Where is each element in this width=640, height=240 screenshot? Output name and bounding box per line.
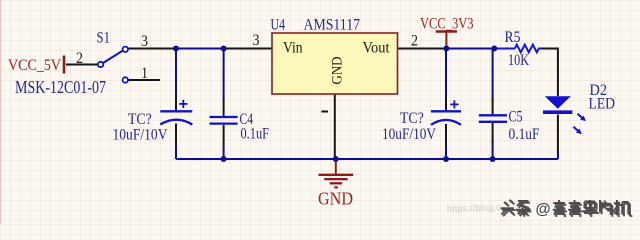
svg-text:VCC_3V3: VCC_3V3 [420,16,474,33]
svg-text:R5: R5 [505,29,521,46]
svg-text:C5: C5 [509,109,523,126]
svg-text:@: @ [536,201,551,218]
svg-text:1: 1 [141,65,148,82]
svg-text:2: 2 [76,50,83,67]
svg-text:TC?: TC? [400,110,424,127]
svg-text:10uF/10V: 10uF/10V [382,126,436,143]
svg-text:Vout: Vout [363,40,391,57]
svg-text:U4: U4 [271,17,286,34]
svg-text:MSK-12C01-07: MSK-12C01-07 [15,77,106,97]
svg-text:3: 3 [141,33,148,50]
svg-text:GND: GND [330,56,346,84]
svg-text:0.1uF: 0.1uF [509,126,540,143]
svg-text:LED: LED [589,96,616,113]
svg-text:https://blog.c: https://blog.c [447,202,501,215]
svg-text:0.1uF: 0.1uF [241,126,270,143]
svg-text:Vin: Vin [283,40,303,57]
svg-text:10uF/10V: 10uF/10V [113,127,168,144]
svg-text:S1: S1 [97,30,111,47]
svg-text:AMS1117: AMS1117 [304,17,361,34]
svg-text:3: 3 [253,32,260,49]
svg-text:10K: 10K [508,52,529,69]
svg-text:TC?: TC? [128,111,152,128]
svg-text:GND: GND [318,189,353,209]
svg-text:2: 2 [411,33,418,50]
svg-text:VCC_5V: VCC_5V [8,57,61,74]
